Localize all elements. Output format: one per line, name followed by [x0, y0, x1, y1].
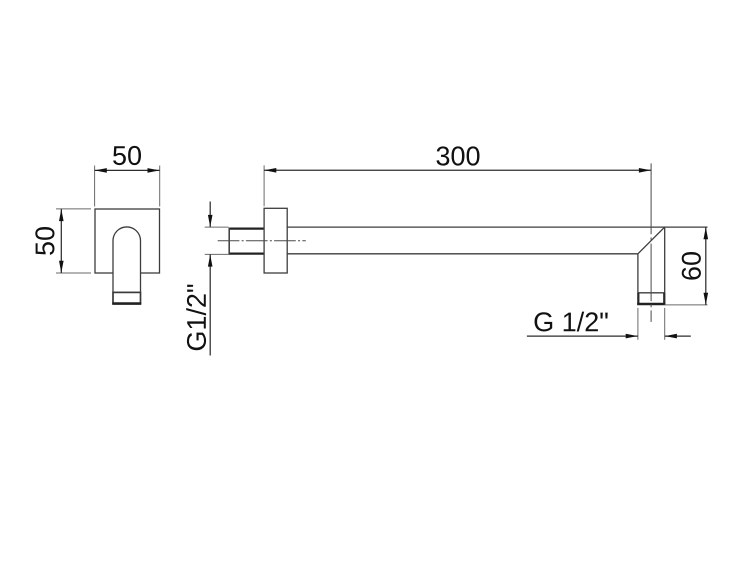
G1/2 wall thread dim line above: [209, 202, 211, 228]
label 60 (rotated): [682, 252, 701, 280]
arrow down of 60 dim: [704, 293, 709, 305]
arrow down to wall thread: [208, 215, 213, 227]
arrow left toward drop thread: [665, 334, 677, 339]
dimension 60 dimension line: [705, 227, 707, 305]
G 1/2 drop thread dim extension line right: [664, 308, 666, 340]
drop nipple thick bottom edge: [637, 303, 665, 306]
label G 1/2": [535, 312, 608, 332]
G1/2 wall thread dim extension line top: [205, 226, 229, 228]
arrow up of 60 dim: [704, 227, 709, 239]
G 1/2 drop thread dim line left part: [527, 335, 638, 337]
dimension 300 dimension line: [264, 169, 651, 171]
arrow down of height dim: [59, 261, 64, 273]
arrow right of 300 dim: [639, 168, 651, 173]
arrow left of 300 dim: [264, 168, 276, 173]
arm top edge: [287, 226, 707, 228]
wall-side threaded nipple top edge (thick): [229, 227, 264, 229]
drop right edge: [664, 227, 666, 305]
label 50 (height, rotated): [35, 227, 54, 255]
dimension 300 extension line: [263, 165, 265, 206]
wall-side threaded nipple bottom edge (thick): [229, 252, 264, 254]
G1/2 wall thread dim extension line bottom: [205, 253, 229, 255]
drop nipple top line: [638, 292, 665, 294]
dimension 50 (height) extension line top: [56, 208, 91, 210]
wall-side threaded nipple left edge: [228, 228, 230, 255]
nipple thick bottom edge: [112, 302, 141, 305]
label 50 (width): [113, 146, 141, 165]
vertical centerline: [650, 163, 652, 322]
dimension 50 (width) dimension line: [95, 169, 160, 171]
tube end nipple front view: [113, 292, 141, 303]
bend miter line: [638, 227, 665, 254]
drop nipple thick right edge: [663, 293, 665, 305]
label 300: [437, 146, 480, 165]
escutcheon plate: [264, 208, 287, 273]
drop left edge: [637, 254, 639, 305]
label G1/2" (rotated): [186, 285, 206, 351]
arrow right of width dim: [148, 168, 160, 173]
flange square outline: [95, 209, 160, 273]
dimension 50 (height) extension line bottom: [56, 272, 91, 274]
G1/2 wall thread dim line below: [209, 254, 211, 355]
drop nipple thick left edge: [637, 293, 639, 305]
arm bottom edge: [287, 253, 638, 255]
arrow up to wall thread: [208, 255, 213, 267]
arm tube front view (U shape): [113, 227, 141, 292]
arrow up of height dim: [59, 209, 64, 221]
dimension 50 (height) dimension line: [60, 209, 62, 273]
dimension 50 (width) extension line left: [94, 166, 96, 207]
G 1/2 drop thread dim line right part: [665, 335, 691, 337]
dimension 50 (width) extension line right: [159, 166, 161, 207]
arrow right toward drop thread: [626, 334, 638, 339]
G 1/2 drop thread dim extension line left: [637, 308, 639, 340]
dimension 60 extension line bottom: [665, 304, 708, 306]
arrow left of width dim: [95, 168, 107, 173]
horizontal centerline: [218, 240, 306, 242]
